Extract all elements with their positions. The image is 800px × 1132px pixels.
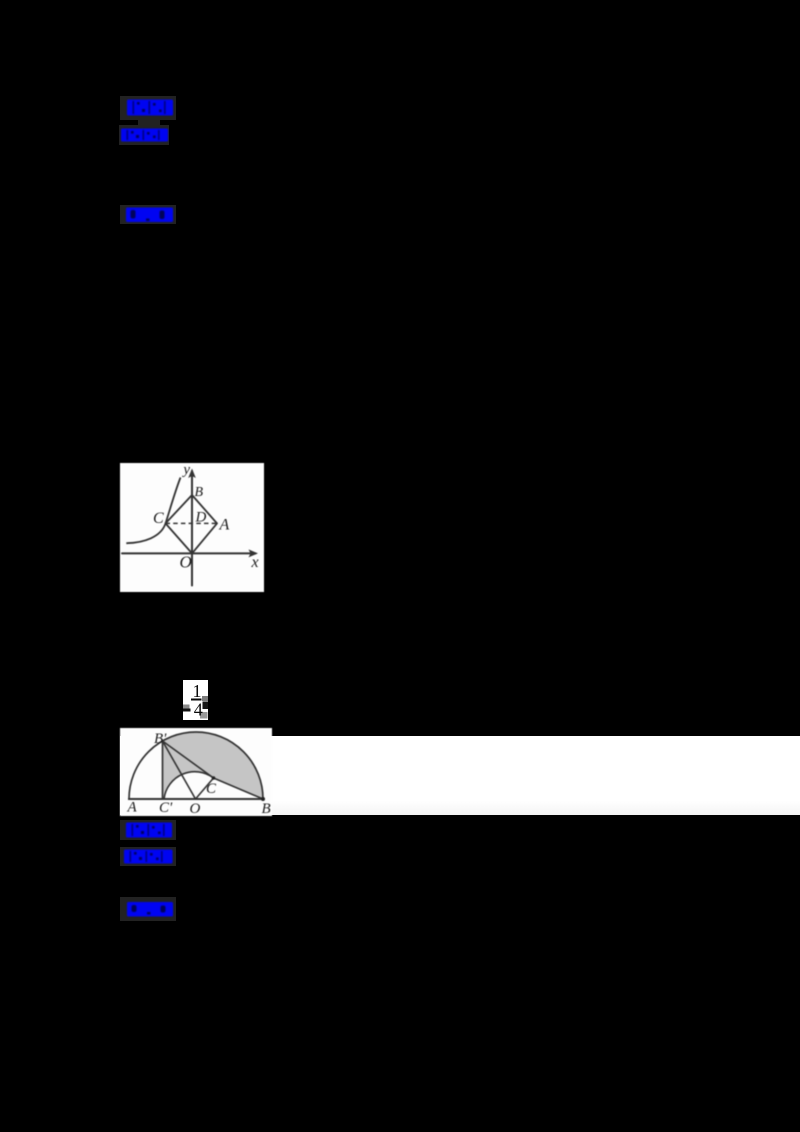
- highlight tab: [138, 119, 160, 127]
- svg-text:4: 4: [194, 700, 203, 720]
- blue label fenxi top: [120, 127, 169, 143]
- diameter AB baseline: [128, 798, 265, 800]
- dark artifact right of 4: [203, 702, 209, 710]
- figure 1: hyperbola and rhombus: [120, 463, 264, 592]
- svg-text:A: A: [127, 799, 138, 815]
- figure 2: semicircles: [120, 728, 272, 816]
- line B' C' vertical: [162, 741, 164, 799]
- svg-text:B: B: [195, 485, 204, 500]
- blue label kaodian top: [126, 98, 174, 117]
- svg-text:1: 1: [193, 681, 202, 701]
- blue label jieda bottom (solid): [126, 901, 174, 918]
- dashed diagonal CA: [166, 522, 218, 524]
- x arrow: [249, 549, 259, 557]
- svg-text:y: y: [181, 463, 190, 478]
- svg-text:O: O: [180, 553, 192, 572]
- small semicircle arc: [164, 771, 214, 798]
- highlight box 4: [120, 820, 176, 841]
- gray artifact right of bar: [202, 696, 208, 701]
- svg-text:C: C: [206, 781, 217, 797]
- highlight box 1: [120, 96, 176, 120]
- dot C: [212, 776, 216, 780]
- highlight box 2: [119, 125, 169, 145]
- svg-text:A: A: [219, 517, 230, 534]
- svg-text:x: x: [251, 554, 259, 571]
- svg-text:B': B': [154, 731, 167, 747]
- wide white strip: [120, 736, 800, 816]
- svg-text:D: D: [195, 510, 207, 526]
- svg-text:B: B: [262, 801, 271, 816]
- shaded region: [163, 732, 264, 799]
- svg-text:O: O: [190, 801, 201, 816]
- gray artifact left: [183, 705, 190, 710]
- fraction bar: [191, 699, 202, 701]
- fraction 1/4 block: [183, 680, 208, 720]
- line B' O: [163, 741, 196, 799]
- blue label jieda top (solid): [125, 206, 174, 224]
- rhombus OABC: [166, 495, 218, 553]
- highlight box 3: [120, 205, 176, 224]
- svg-text:C': C': [159, 800, 173, 816]
- hyperbola curve: [126, 478, 180, 544]
- blue label kaodian bottom: [125, 821, 173, 839]
- x-axis: [122, 552, 256, 554]
- line B' C: [163, 741, 214, 778]
- y arrow: [188, 469, 196, 479]
- svg-text:C: C: [153, 510, 164, 527]
- line O C: [196, 778, 214, 799]
- dot B: [261, 797, 265, 801]
- big semicircle arc: [129, 732, 263, 799]
- gray artifact bottom right: [200, 712, 208, 719]
- y-axis: [191, 471, 193, 586]
- line C B: [214, 778, 264, 799]
- black dash left: [183, 709, 191, 712]
- highlight box 6: [120, 897, 176, 922]
- blue label fenxi bottom: [123, 848, 173, 865]
- highlight box 5: [120, 847, 176, 866]
